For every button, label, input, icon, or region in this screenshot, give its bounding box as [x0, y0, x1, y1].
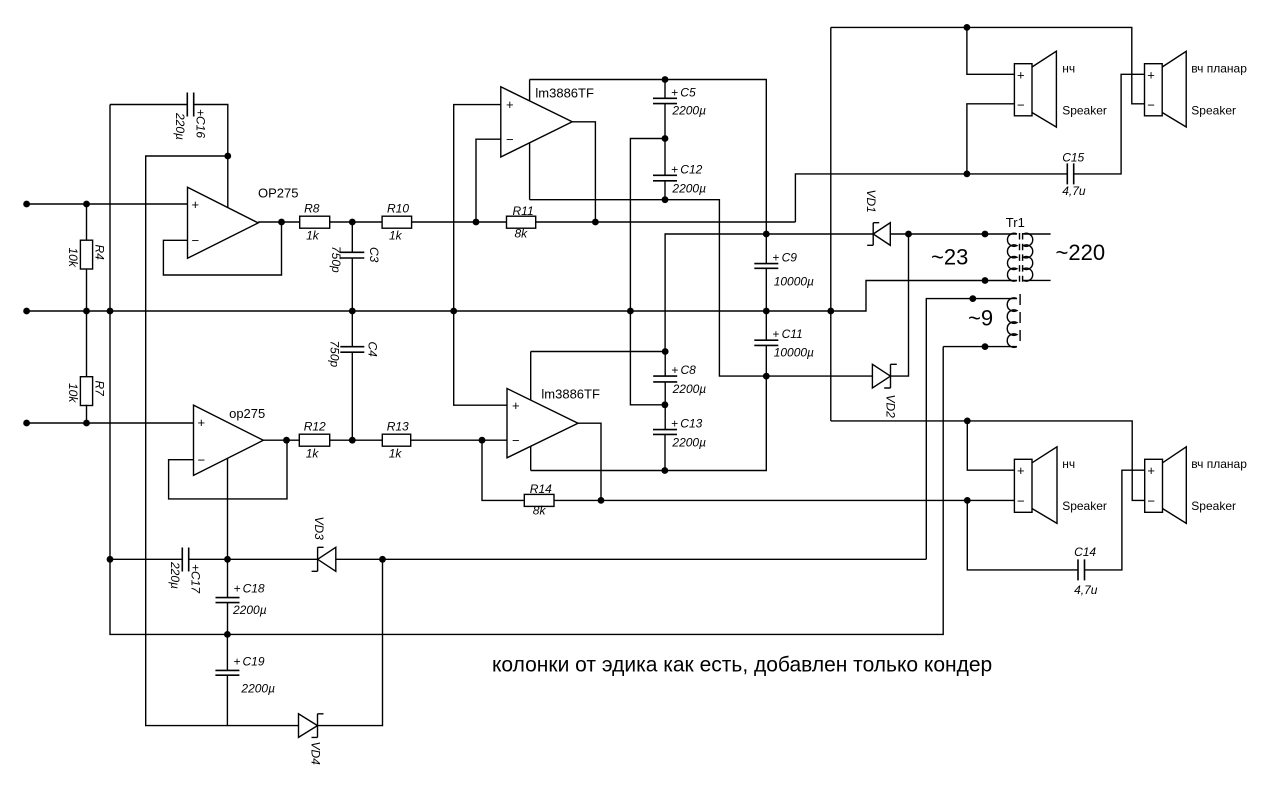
speaker top nch box [1014, 64, 1032, 116]
svg-text:VD1: VD1 [864, 190, 878, 213]
svg-text:+C17: +C17 [189, 564, 203, 594]
node U1 output [278, 219, 285, 226]
resistor R8 [300, 216, 330, 228]
svg-text:R10: R10 [387, 202, 409, 216]
node R8/R10/C3 junction [349, 219, 356, 226]
power-amp U4 lm3886TF [507, 389, 578, 458]
resistor R11 [507, 216, 536, 228]
diode VD2 [872, 364, 890, 388]
speaker bottom nch box [1014, 459, 1032, 512]
svg-text:R13: R13 [387, 420, 409, 434]
svg-text:C19: C19 [243, 654, 265, 668]
node U3/U4 + rail junction [450, 308, 457, 315]
diode VD1 [873, 223, 890, 246]
svg-text:lm3886TF: lm3886TF [535, 86, 594, 101]
wire R13 to U4 - input [411, 439, 507, 441]
svg-text:−: − [198, 452, 206, 467]
node primary top terminal [982, 231, 989, 238]
wire C15 right riser to top vch + [1074, 74, 1145, 174]
svg-text:4,7u: 4,7u [1074, 583, 1098, 597]
node VD1 cathode line [905, 231, 912, 238]
node x830 on common rail [827, 308, 834, 315]
svg-text:R12: R12 [304, 420, 326, 434]
wire R12 to R13 [330, 439, 383, 441]
svg-text:колонки от эдика как есть, доб: колонки от эдика как есть, добавлен толь… [492, 654, 992, 677]
svg-text:−: − [192, 233, 200, 248]
wire U1 V+ pin [227, 156, 229, 208]
resistor R4 [86, 204, 88, 311]
capacitor C14 [1078, 559, 1085, 580]
capacitor C12 [653, 175, 677, 181]
svg-text:750p: 750p [328, 341, 342, 368]
op-amp U2 op275 [194, 405, 264, 475]
svg-text:+: + [671, 417, 678, 431]
wire secondary bottom lead [1023, 279, 1050, 281]
speaker top vch horn [1162, 51, 1186, 127]
svg-text:220µ: 220µ [168, 561, 182, 589]
capacitor C17 [182, 548, 188, 572]
node x630 on common rail [627, 308, 634, 315]
transformer Tr1 secondary winding ~220 [1023, 233, 1032, 281]
wire U3 output riser [572, 122, 595, 222]
svg-text:8k: 8k [533, 504, 547, 518]
svg-text:R4: R4 [93, 245, 107, 261]
svg-text:1k: 1k [389, 447, 403, 461]
svg-text:+: + [772, 327, 779, 341]
node R4 top [83, 201, 90, 208]
svg-text:+: + [506, 97, 514, 112]
wire input-top to op-amp U1 + [27, 203, 188, 205]
svg-text:R14: R14 [530, 482, 552, 496]
wire U4 V+ pin stub [530, 352, 532, 401]
svg-text:+: + [198, 415, 206, 430]
svg-text:C14: C14 [1074, 545, 1096, 559]
diode VD4 [299, 714, 318, 738]
node bottom return / nch+ riser [964, 418, 971, 425]
svg-text:220µ: 220µ [173, 112, 187, 140]
svg-text:+: + [233, 654, 240, 668]
wire U2 V- pin to C18 top [227, 458, 229, 559]
node C9/C11 on common rail [763, 308, 770, 315]
svg-text:C5: C5 [680, 85, 696, 99]
wire top nch - lead down to output line [967, 104, 1015, 174]
capacitor C5 [664, 80, 666, 99]
svg-text:+: + [671, 85, 678, 99]
svg-text:2200µ: 2200µ [232, 603, 267, 617]
wire U3 V- rail to C12 bottom then down x719 to VD2 line [530, 200, 873, 376]
node R4 bottom [83, 308, 90, 315]
wire VD1 node down to VD2 bar [891, 234, 909, 376]
diode VD3 [318, 547, 336, 571]
wire U2 feedback loop [169, 440, 287, 499]
svg-text:+: + [1147, 67, 1155, 82]
svg-text:+: + [1017, 67, 1025, 82]
svg-text:+: + [671, 363, 678, 377]
speaker top vch box [1145, 64, 1163, 116]
node R12/R13/C4 junction [349, 437, 356, 444]
svg-text:R8: R8 [304, 202, 320, 216]
svg-text:C11: C11 [782, 327, 803, 341]
svg-text:10000µ: 10000µ [774, 275, 814, 289]
svg-text:VD2: VD2 [884, 395, 898, 419]
wire ~9 bottom lead [943, 346, 1017, 348]
wire common rail y311 to transformer primary bottom [27, 281, 1017, 312]
wire VD3 base right to ~9 riser [336, 558, 927, 560]
svg-text:R11: R11 [513, 204, 534, 218]
node U2 output [283, 437, 290, 444]
wire C17 right to VD3 [189, 558, 318, 560]
wire VD3 node down to VD4 line [318, 559, 383, 725]
node op-amp U1 V+ [224, 153, 231, 160]
wire R13 junction down to R14 [482, 440, 524, 500]
svg-text:1k: 1k [389, 229, 403, 243]
resistor R10 [382, 216, 412, 228]
wire VD1 base to VD1/VD2 node [890, 233, 908, 235]
power-amp U3 lm3886TF [501, 87, 572, 157]
resistor R13 [382, 434, 410, 446]
node C5 top [662, 76, 669, 83]
svg-text:C18: C18 [243, 582, 265, 596]
node bottom nch - / C14 riser [964, 497, 971, 504]
node VD3/VD4 column [379, 556, 386, 563]
wire VD1 node right to transformer primary top [909, 233, 1017, 235]
wire C8 bottom to C13 top [664, 382, 666, 430]
node C18 top [224, 556, 231, 563]
svg-text:+: + [512, 398, 520, 413]
svg-text:−: − [1017, 493, 1025, 508]
wire U3 V+ rail to C5 top and down C9 column [530, 80, 767, 264]
speaker bottom vch horn [1163, 447, 1187, 524]
speaker bottom nch horn [1032, 447, 1057, 524]
svg-text:+: + [192, 197, 200, 212]
wire secondary top lead [1023, 233, 1050, 235]
svg-text:Speaker: Speaker [1062, 499, 1107, 513]
svg-text:−: − [506, 132, 514, 147]
wire C9 top line to C8 top [665, 234, 766, 352]
svg-text:Tr1: Tr1 [1006, 215, 1025, 230]
svg-text:C9: C9 [782, 251, 798, 265]
node C13 bottom [661, 467, 668, 474]
svg-text:+C16: +C16 [194, 109, 208, 138]
svg-text:1k: 1k [306, 229, 320, 243]
node C3 bottom on common rail [349, 308, 356, 315]
node R13/R14 junction [479, 437, 486, 444]
svg-text:10k: 10k [66, 383, 80, 403]
capacitor C11 [754, 340, 778, 345]
svg-text:Speaker: Speaker [1191, 499, 1236, 513]
svg-text:op275: op275 [229, 406, 265, 421]
svg-text:~220: ~220 [1056, 240, 1106, 265]
node input-top [23, 201, 30, 208]
svg-text:2200µ: 2200µ [671, 435, 706, 449]
wire R14 right to lower speakers (nch -) [554, 499, 1014, 501]
op-amp U1 OP275 [188, 187, 259, 258]
transformer core [1020, 233, 1023, 282]
node C8 top [662, 348, 669, 355]
svg-text:нч: нч [1062, 457, 1075, 471]
wire bottom nch + lead [967, 421, 1014, 470]
node C18 bottom [224, 631, 231, 638]
node x110 on C17 line [107, 556, 114, 563]
capacitor C18 [227, 559, 229, 634]
node ~9 top terminal [969, 295, 976, 302]
speaker bottom vch box [1145, 459, 1163, 512]
svg-text:−: − [1147, 493, 1155, 508]
svg-text:C13: C13 [680, 417, 702, 431]
node U3 -inv riser junction [473, 219, 480, 226]
node C5/C12 junction [662, 135, 669, 142]
svg-text:10k: 10k [66, 248, 80, 268]
wire top nch + lead [967, 27, 1015, 74]
wire U3 V- pin stub [529, 143, 531, 200]
capacitor C15 [1067, 163, 1073, 184]
svg-text:C12: C12 [680, 162, 702, 176]
wire R11 right to output corner x795 [536, 221, 796, 223]
wire R10 to R11 [412, 221, 507, 223]
wire U4 V- rail to C13 bottom and up to C11 bottom node [531, 345, 767, 470]
node x110 on common rail [107, 308, 114, 315]
wire input-bottom to op-amp U2 + [27, 422, 194, 424]
wire ~9 top lead down to VD3 line [926, 299, 1017, 560]
wire top speaker return line y27 [831, 27, 1145, 103]
svg-text:8k: 8k [515, 227, 529, 241]
svg-text:вч планар: вч планар [1191, 61, 1247, 75]
wire C5/C12 junction left to x630 riser, down to C8/C13 junction [630, 139, 665, 405]
node primary bottom terminal [982, 277, 989, 284]
svg-text:2200µ: 2200µ [671, 182, 706, 196]
svg-text:1k: 1k [306, 447, 320, 461]
speaker top nch horn [1032, 51, 1056, 127]
wire U1 feedback loop [163, 222, 281, 275]
capacitor C9 [754, 264, 778, 269]
capacitor C16 [110, 105, 228, 157]
svg-text:вч планар: вч планар [1191, 457, 1247, 471]
wire U4 V- pin stub [530, 446, 532, 470]
node R7 bottom [83, 420, 90, 427]
svg-text:4,7u: 4,7u [1062, 184, 1086, 198]
svg-text:−: − [1017, 97, 1025, 112]
resistor R7 [86, 311, 88, 423]
transformer Tr1 primary winding ~23 [1007, 233, 1016, 281]
wire C5 bottom to C12 top [664, 104, 666, 176]
node input-bottom [23, 420, 30, 427]
capacitor C8 [664, 352, 666, 377]
svg-text:Speaker: Speaker [1062, 103, 1107, 117]
wire output up to speaker line [795, 174, 1067, 222]
wire bottom speaker return line y421 [831, 421, 1145, 501]
svg-text:−: − [512, 433, 520, 448]
capacitor C19 [226, 634, 228, 725]
svg-text:750p: 750p [329, 246, 343, 273]
wire left riser x110 down to C18/C19 rail then to ~9 winding bottom riser [110, 105, 943, 635]
node C8/C13 junction [662, 401, 669, 408]
capacitor C3 [351, 222, 353, 311]
svg-text:lm3886TF: lm3886TF [541, 387, 600, 402]
svg-text:~9: ~9 [968, 306, 993, 331]
svg-text:−: − [1147, 97, 1155, 112]
node ~9 bottom terminal [982, 343, 989, 350]
svg-text:нч: нч [1062, 61, 1075, 75]
wire U2 output to R12 [263, 439, 299, 441]
node top output line / nch - riser [964, 171, 971, 178]
wire U3 - input riser [476, 139, 501, 222]
svg-text:VD3: VD3 [312, 517, 326, 541]
node C12 bottom [662, 196, 669, 203]
svg-text:2200µ: 2200µ [240, 682, 275, 696]
node C11 bottom on VD2 line [763, 373, 770, 380]
capacitor C4 [351, 311, 353, 440]
node C9 top on VD1 line [763, 231, 770, 238]
svg-text:C15: C15 [1062, 151, 1084, 165]
svg-text:OP275: OP275 [258, 186, 298, 201]
wire U1 output to R8 [258, 221, 300, 223]
node top return / nch+ riser [964, 24, 971, 31]
wire bottom nch - down to C14 line [967, 500, 1078, 570]
svg-text:C8: C8 [681, 363, 697, 377]
wire C14 right riser to bottom vch + [1085, 470, 1145, 570]
svg-text:+: + [1147, 463, 1155, 478]
svg-text:~23: ~23 [931, 245, 968, 270]
svg-text:10000µ: 10000µ [774, 346, 814, 360]
wire C9 top node to VD1 anode [766, 233, 873, 235]
winding ~9 core dash [1019, 294, 1021, 345]
wire R8 to R10 [330, 221, 382, 223]
svg-text:C3: C3 [367, 247, 381, 263]
resistor R14 [524, 494, 554, 506]
svg-text:Speaker: Speaker [1191, 103, 1236, 117]
wire speaker return riser x830 [830, 27, 832, 421]
svg-text:+: + [1017, 463, 1025, 478]
winding ~9 [1007, 298, 1017, 347]
wire C9 bottom to C11 top [765, 268, 767, 340]
svg-text:2200µ: 2200µ [671, 104, 706, 118]
svg-text:+: + [234, 582, 241, 596]
wire C17/VD3 line left part [110, 558, 182, 560]
svg-text:+: + [671, 162, 678, 176]
svg-text:R7: R7 [93, 381, 107, 398]
wire U3 V+ pin stub [529, 80, 531, 102]
wire U4 output riser [578, 423, 601, 500]
wire U3 + input riser to common rail and U4 + input [454, 105, 507, 406]
resistor R12 [299, 434, 329, 446]
capacitor C13 [653, 430, 677, 435]
node input-common [23, 308, 30, 315]
svg-text:VD4: VD4 [309, 742, 323, 766]
wire U1 V+ node left then down x145.7 to VD4 line [146, 156, 299, 726]
svg-text:C4: C4 [366, 342, 380, 358]
svg-text:2200µ: 2200µ [672, 382, 707, 396]
node U4 output / R14 [598, 497, 605, 504]
wire U4 V+ rail to C8 top [531, 351, 666, 353]
svg-text:+: + [772, 251, 779, 265]
node U3 output on R11 line [592, 219, 599, 226]
